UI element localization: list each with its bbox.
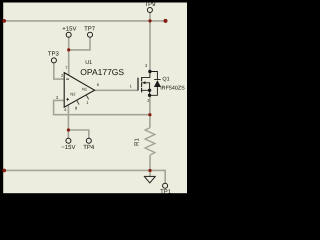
svg-text:−15V: −15V [61, 144, 75, 151]
svg-text:TP9: TP9 [144, 1, 156, 8]
svg-text:IRF540ZS: IRF540ZS [160, 85, 185, 91]
svg-text:TP7: TP7 [84, 25, 96, 32]
svg-text:N1: N1 [82, 86, 88, 91]
svg-text:TP4: TP4 [83, 144, 95, 151]
svg-text:N2: N2 [70, 92, 76, 97]
svg-text:Q1: Q1 [162, 76, 169, 82]
svg-text:R1: R1 [134, 138, 141, 146]
svg-text:TP3: TP3 [48, 50, 60, 57]
svg-text:+15V: +15V [62, 25, 76, 32]
svg-text:TP1: TP1 [160, 188, 172, 195]
svg-text:U1: U1 [85, 60, 92, 66]
svg-text:OPA177GS: OPA177GS [80, 67, 124, 77]
